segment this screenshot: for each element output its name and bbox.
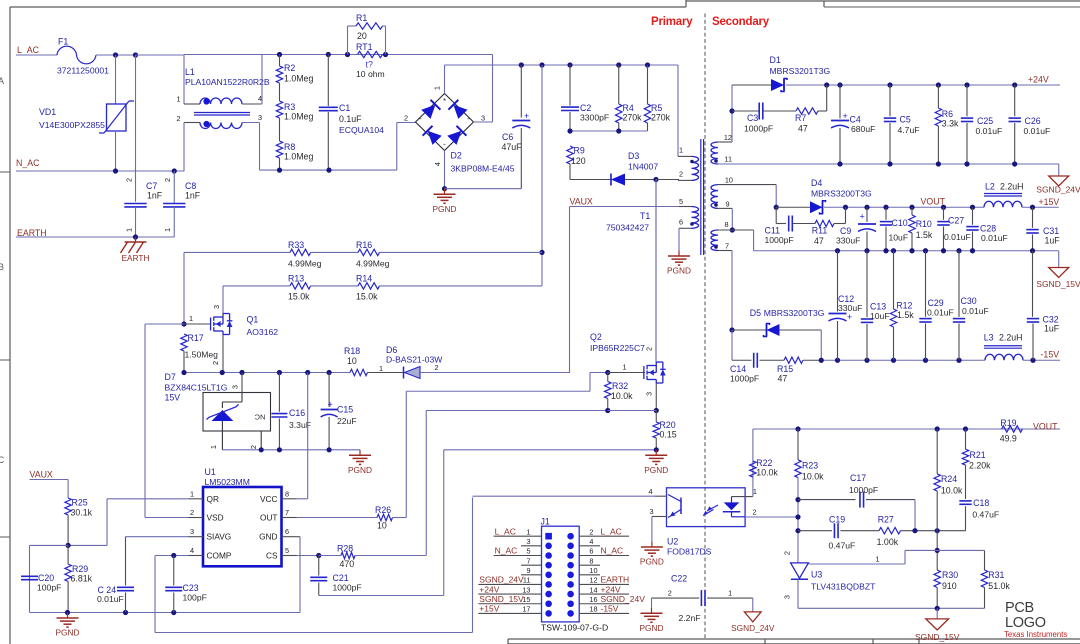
svg-text:4: 4	[258, 94, 262, 103]
svg-text:1000pF: 1000pF	[849, 485, 878, 495]
svg-text:AO3162: AO3162	[247, 327, 279, 337]
svg-text:2: 2	[125, 178, 134, 182]
svg-text:2.2nF: 2.2nF	[679, 613, 701, 623]
svg-text:J1: J1	[541, 517, 550, 527]
svg-text:B: B	[0, 262, 4, 272]
svg-text:R17: R17	[188, 333, 204, 343]
svg-text:1.5k: 1.5k	[897, 310, 914, 320]
svg-text:LM5023MM: LM5023MM	[205, 477, 250, 487]
svg-text:SGND_24V: SGND_24V	[601, 594, 646, 604]
svg-text:1: 1	[433, 86, 442, 90]
svg-text:0.15: 0.15	[660, 430, 677, 440]
svg-text:6: 6	[679, 218, 683, 227]
svg-text:L1: L1	[185, 67, 195, 77]
svg-text:C7: C7	[146, 181, 157, 191]
svg-text:SGND_15V: SGND_15V	[915, 632, 960, 642]
svg-text:D2: D2	[451, 151, 462, 161]
svg-text:C3: C3	[747, 113, 758, 123]
svg-text:D1: D1	[770, 55, 781, 65]
svg-text:PLA10AN1522R0R2B: PLA10AN1522R0R2B	[185, 77, 270, 87]
svg-text:PGND: PGND	[348, 465, 372, 475]
svg-text:2: 2	[668, 589, 672, 598]
svg-text:5: 5	[285, 546, 289, 555]
svg-text:3: 3	[649, 507, 653, 516]
svg-text:7: 7	[285, 508, 289, 517]
svg-text:20: 20	[357, 31, 367, 41]
svg-text:120: 120	[571, 156, 586, 166]
svg-text:1: 1	[753, 487, 757, 496]
svg-text:750342427: 750342427	[606, 223, 649, 233]
svg-text:47: 47	[814, 236, 824, 246]
svg-text:4: 4	[190, 546, 194, 555]
svg-text:PCB: PCB	[1005, 600, 1034, 616]
svg-text:C4: C4	[850, 115, 861, 125]
svg-text:12: 12	[589, 576, 597, 585]
svg-text:U3: U3	[811, 570, 822, 580]
svg-text:F1: F1	[58, 37, 68, 47]
svg-text:1: 1	[876, 555, 880, 564]
svg-text:R18: R18	[344, 346, 360, 356]
svg-text:R25: R25	[72, 498, 88, 508]
svg-text:0.01uF: 0.01uF	[962, 306, 989, 316]
svg-text:1.5k: 1.5k	[916, 230, 933, 240]
svg-text:3: 3	[645, 392, 654, 396]
svg-text:COMP: COMP	[207, 551, 232, 561]
svg-text:R26: R26	[375, 505, 391, 515]
svg-text:C1: C1	[339, 103, 350, 113]
svg-text:3: 3	[258, 113, 262, 122]
svg-text:C31: C31	[1043, 226, 1059, 236]
svg-text:Texas Instruments: Texas Instruments	[1004, 630, 1067, 639]
svg-text:L2: L2	[985, 182, 995, 192]
svg-text:47: 47	[778, 374, 788, 384]
svg-text:R30: R30	[942, 570, 958, 580]
svg-text:Q1: Q1	[247, 315, 259, 325]
svg-text:3: 3	[212, 305, 221, 309]
svg-text:R29: R29	[72, 564, 88, 574]
svg-text:2: 2	[163, 178, 172, 182]
svg-text:C23: C23	[183, 583, 199, 593]
svg-text:MBRS3200T3G: MBRS3200T3G	[764, 308, 825, 318]
svg-text:+: +	[860, 212, 865, 222]
svg-text:4.7uF: 4.7uF	[898, 125, 920, 135]
svg-text:MBRS3200T3G: MBRS3200T3G	[811, 189, 872, 199]
svg-text:C8: C8	[185, 181, 196, 191]
svg-text:-15V: -15V	[1041, 350, 1060, 360]
svg-text:2.2uH: 2.2uH	[1000, 182, 1023, 192]
svg-text:U1: U1	[205, 467, 216, 477]
svg-text:37211250001: 37211250001	[57, 66, 109, 76]
svg-text:15.0k: 15.0k	[288, 292, 310, 302]
svg-text:100pF: 100pF	[37, 583, 61, 593]
svg-text:0.47uF: 0.47uF	[829, 541, 856, 551]
svg-text:10: 10	[725, 176, 733, 185]
svg-text:PGND: PGND	[640, 623, 664, 633]
svg-text:R5: R5	[651, 103, 662, 113]
svg-text:0.1uF: 0.1uF	[339, 114, 362, 124]
svg-text:L3: L3	[984, 333, 994, 343]
svg-text:-: -	[419, 114, 422, 123]
svg-text:11: 11	[724, 155, 732, 164]
svg-text:C18: C18	[973, 498, 989, 508]
svg-text:12: 12	[724, 133, 732, 142]
svg-text:1: 1	[176, 95, 180, 104]
svg-text:0.01uF: 0.01uF	[1024, 126, 1051, 136]
svg-text:7: 7	[725, 242, 729, 251]
svg-text:6.81k: 6.81k	[71, 574, 93, 584]
svg-text:L_AC: L_AC	[601, 526, 622, 536]
svg-text:Secondary: Secondary	[712, 16, 770, 28]
svg-text:ECQUA104: ECQUA104	[339, 125, 384, 135]
svg-text:1: 1	[163, 228, 172, 232]
svg-text:PGND: PGND	[433, 204, 457, 214]
svg-text:SGND_15V: SGND_15V	[1036, 279, 1080, 289]
svg-text:C25: C25	[977, 116, 993, 126]
svg-text:2: 2	[211, 361, 220, 365]
svg-text:10: 10	[347, 356, 357, 366]
svg-text:R32: R32	[612, 381, 628, 391]
svg-text:TLV431BQDBZT: TLV431BQDBZT	[811, 582, 876, 592]
svg-text:R8: R8	[284, 142, 295, 152]
svg-text:1000pF: 1000pF	[744, 124, 773, 134]
svg-text:R6: R6	[942, 109, 953, 119]
svg-text:C29: C29	[928, 298, 944, 308]
svg-text:2.20k: 2.20k	[969, 461, 991, 471]
svg-text:C14: C14	[730, 364, 746, 374]
svg-text:VAUX: VAUX	[570, 197, 593, 207]
svg-text:OUT: OUT	[260, 513, 278, 523]
svg-text:VSD: VSD	[207, 513, 224, 523]
svg-text:QR: QR	[207, 494, 219, 504]
svg-text:PGND: PGND	[640, 557, 664, 567]
svg-text:1uF: 1uF	[1045, 236, 1061, 246]
svg-text:2: 2	[783, 551, 792, 555]
svg-text:C20: C20	[38, 573, 54, 583]
svg-text:2: 2	[404, 114, 408, 123]
svg-text:C: C	[0, 455, 5, 465]
svg-text:PGND: PGND	[644, 465, 668, 475]
svg-text:R11: R11	[812, 226, 828, 236]
svg-text:PGND: PGND	[667, 266, 691, 276]
svg-text:100pF: 100pF	[183, 593, 207, 603]
svg-text:10: 10	[377, 521, 387, 531]
svg-text:1000pF: 1000pF	[765, 235, 794, 245]
svg-text:1.00k: 1.00k	[877, 537, 899, 547]
svg-text:+: +	[847, 312, 852, 322]
svg-text:0.47uF: 0.47uF	[972, 510, 999, 520]
svg-text:51.0k: 51.0k	[988, 581, 1010, 591]
svg-text:49.9: 49.9	[1000, 434, 1017, 444]
svg-text:+: +	[328, 400, 333, 410]
svg-text:R1: R1	[356, 13, 367, 23]
svg-text:VAUX: VAUX	[30, 470, 53, 480]
svg-text:R12: R12	[896, 301, 912, 311]
svg-text:1: 1	[209, 445, 218, 449]
svg-text:270k: 270k	[651, 113, 671, 123]
svg-text:22uF: 22uF	[337, 416, 357, 426]
svg-text:10: 10	[589, 566, 597, 575]
svg-text:16: 16	[589, 595, 597, 604]
svg-text:C16: C16	[289, 408, 305, 418]
svg-text:C22: C22	[671, 574, 687, 584]
svg-text:D3: D3	[628, 151, 639, 161]
svg-text:NC: NC	[254, 413, 265, 422]
svg-text:-15V: -15V	[601, 604, 619, 614]
svg-text:15V: 15V	[165, 393, 181, 403]
svg-text:9: 9	[526, 566, 530, 575]
svg-text:+24V: +24V	[601, 584, 621, 594]
svg-text:V14E300PX2855: V14E300PX2855	[39, 120, 105, 130]
svg-text:2.2uH: 2.2uH	[999, 333, 1022, 343]
svg-text:1: 1	[623, 363, 627, 372]
svg-text:8: 8	[589, 556, 593, 565]
svg-text:47: 47	[798, 124, 808, 134]
svg-text:5: 5	[679, 197, 683, 206]
svg-text:2: 2	[679, 170, 683, 179]
svg-text:N_AC: N_AC	[601, 546, 624, 556]
svg-text:680uF: 680uF	[851, 124, 875, 134]
svg-text:VOUT: VOUT	[921, 197, 946, 207]
svg-text:C17: C17	[850, 473, 866, 483]
svg-text:L_AC: L_AC	[495, 526, 516, 536]
svg-text:6: 6	[589, 547, 593, 556]
svg-text:3.3k: 3.3k	[942, 119, 959, 129]
svg-text:0.01uF: 0.01uF	[981, 233, 1008, 243]
svg-text:C10: C10	[892, 218, 908, 228]
svg-text:C30: C30	[961, 296, 977, 306]
svg-text:C11: C11	[765, 226, 781, 236]
svg-text:FOD817DS: FOD817DS	[667, 547, 712, 557]
svg-text:8: 8	[285, 489, 289, 498]
svg-text:1.50Meg: 1.50Meg	[185, 350, 219, 360]
svg-text:SGND_24V: SGND_24V	[1036, 184, 1080, 194]
svg-text:1: 1	[526, 527, 530, 536]
svg-text:C9: C9	[840, 226, 851, 236]
svg-text:8: 8	[724, 220, 728, 229]
svg-text:D-BAS21-03W: D-BAS21-03W	[386, 355, 443, 365]
svg-text:Q2: Q2	[590, 332, 602, 342]
svg-text:MBRS3201T3G: MBRS3201T3G	[770, 66, 831, 76]
svg-text:R15: R15	[777, 364, 793, 374]
svg-text:0.01uF: 0.01uF	[944, 232, 971, 242]
svg-text:D6: D6	[386, 345, 397, 355]
svg-text:t?: t?	[366, 60, 373, 70]
svg-text:R20: R20	[660, 420, 676, 430]
svg-text:SGND_24V: SGND_24V	[479, 575, 524, 585]
svg-text:1: 1	[679, 146, 683, 155]
svg-text:VD1: VD1	[39, 107, 56, 117]
svg-text:3: 3	[231, 385, 240, 389]
svg-text:R4: R4	[623, 103, 634, 113]
svg-text:GND: GND	[259, 532, 277, 542]
svg-text:30.1k: 30.1k	[71, 508, 93, 518]
svg-text:VCC: VCC	[260, 494, 278, 504]
svg-text:330uF: 330uF	[838, 303, 862, 313]
svg-text:+24V: +24V	[479, 584, 499, 594]
svg-text:3: 3	[526, 537, 530, 546]
svg-text:IPB65R225C7: IPB65R225C7	[590, 343, 645, 353]
svg-text:A: A	[0, 76, 4, 86]
svg-text:470: 470	[340, 559, 355, 569]
svg-text:L_AC: L_AC	[17, 45, 40, 55]
svg-text:R10: R10	[916, 219, 932, 229]
svg-text:R33: R33	[288, 240, 304, 250]
svg-text:1.0Meg: 1.0Meg	[284, 112, 313, 122]
svg-text:15.0k: 15.0k	[356, 292, 378, 302]
svg-text:U2: U2	[667, 537, 678, 547]
svg-text:SGND_15V: SGND_15V	[479, 594, 524, 604]
svg-text:10.0k: 10.0k	[802, 472, 824, 482]
svg-text:BZX84C15LT1G: BZX84C15LT1G	[165, 383, 228, 393]
svg-text:1uF: 1uF	[1044, 324, 1060, 334]
svg-text:+: +	[524, 111, 529, 121]
svg-text:13: 13	[522, 585, 530, 594]
svg-text:SIAVG: SIAVG	[207, 532, 232, 542]
svg-text:R28: R28	[337, 544, 353, 554]
svg-text:R19: R19	[1000, 418, 1016, 428]
svg-text:C19: C19	[829, 515, 845, 525]
svg-text:910: 910	[942, 581, 957, 591]
svg-text:2: 2	[753, 508, 757, 517]
svg-text:R21: R21	[970, 450, 986, 460]
svg-text:1: 1	[125, 228, 134, 232]
svg-text:1: 1	[189, 314, 193, 323]
svg-text:C2: C2	[580, 103, 591, 113]
svg-text:0.01uF: 0.01uF	[97, 594, 124, 604]
svg-text:0.01uF: 0.01uF	[927, 308, 954, 318]
svg-text:RT1: RT1	[356, 42, 373, 52]
svg-text:N_AC: N_AC	[495, 546, 518, 556]
svg-text:4.99Meg: 4.99Meg	[356, 259, 390, 269]
svg-text:1nF: 1nF	[185, 191, 201, 201]
svg-text:C13: C13	[870, 302, 886, 312]
svg-text:+15V: +15V	[479, 604, 499, 614]
svg-text:1nF: 1nF	[147, 191, 163, 201]
svg-text:14: 14	[589, 585, 597, 594]
svg-text:4: 4	[433, 162, 442, 166]
svg-text:+: +	[843, 111, 848, 121]
svg-text:10 ohm: 10 ohm	[356, 69, 385, 79]
svg-text:1.0Meg: 1.0Meg	[284, 152, 313, 162]
svg-text:17: 17	[522, 605, 530, 614]
svg-text:R27: R27	[878, 515, 894, 525]
svg-text:47uF: 47uF	[502, 142, 523, 152]
svg-text:9: 9	[725, 200, 729, 209]
svg-text:C21: C21	[333, 573, 349, 583]
svg-text:11: 11	[523, 576, 531, 585]
svg-text:1: 1	[379, 364, 383, 373]
svg-text:R7: R7	[795, 113, 806, 123]
svg-text:270k: 270k	[623, 113, 643, 123]
svg-text:1N4007: 1N4007	[628, 162, 658, 172]
svg-text:2: 2	[190, 508, 194, 517]
svg-text:EARTH: EARTH	[122, 253, 150, 263]
svg-text:10.0k: 10.0k	[941, 486, 963, 496]
svg-text:PGND: PGND	[56, 628, 80, 638]
svg-text:4: 4	[648, 487, 652, 496]
svg-text:3: 3	[190, 527, 194, 536]
svg-text:C27: C27	[948, 216, 964, 226]
svg-text:C15: C15	[337, 405, 353, 415]
svg-text:CS: CS	[266, 551, 278, 561]
svg-text:LOGO: LOGO	[1005, 615, 1046, 631]
svg-text:2: 2	[176, 114, 180, 123]
svg-text:+15V: +15V	[1039, 197, 1060, 207]
svg-text:R23: R23	[802, 461, 818, 471]
svg-text:C5: C5	[900, 115, 911, 125]
svg-text:0.01uF: 0.01uF	[976, 126, 1003, 136]
svg-text:R14: R14	[356, 274, 372, 284]
svg-text:2: 2	[249, 445, 258, 449]
svg-text:3300pF: 3300pF	[580, 113, 609, 123]
svg-text:R13: R13	[288, 274, 304, 284]
svg-text:*: *	[443, 97, 446, 106]
svg-text:4.99Meg: 4.99Meg	[288, 259, 322, 269]
svg-text:2: 2	[645, 347, 654, 351]
svg-text:R9: R9	[574, 146, 585, 156]
svg-text:D4: D4	[811, 178, 822, 188]
svg-text:D7: D7	[165, 372, 176, 382]
svg-text:3KBP08M-E4/45: 3KBP08M-E4/45	[451, 164, 515, 174]
svg-text:T1: T1	[640, 211, 650, 221]
svg-text:1000pF: 1000pF	[333, 583, 362, 593]
svg-text:R3: R3	[284, 102, 295, 112]
svg-text:1: 1	[728, 589, 732, 598]
svg-text:R24: R24	[941, 474, 957, 484]
svg-text:SGND_24V: SGND_24V	[731, 623, 775, 633]
svg-text:C26: C26	[1025, 116, 1041, 126]
svg-text:D5: D5	[750, 308, 761, 318]
svg-text:6: 6	[285, 527, 289, 536]
svg-text:N_AC: N_AC	[16, 158, 40, 168]
svg-text:3: 3	[481, 114, 485, 123]
svg-text:10.0k: 10.0k	[611, 391, 633, 401]
svg-text:R2: R2	[284, 63, 295, 73]
svg-text:10uF: 10uF	[889, 233, 909, 243]
svg-text:5: 5	[526, 547, 530, 556]
svg-text:R31: R31	[988, 570, 1004, 580]
svg-text:Primary: Primary	[651, 16, 693, 28]
svg-text:3: 3	[783, 595, 792, 599]
svg-text:TSW-109-07-G-D: TSW-109-07-G-D	[541, 623, 608, 633]
svg-text:VOUT: VOUT	[1033, 422, 1058, 432]
svg-text:2: 2	[589, 527, 593, 536]
svg-text:-: -	[443, 140, 446, 149]
svg-text:1000pF: 1000pF	[730, 374, 759, 384]
svg-text:C28: C28	[980, 224, 996, 234]
svg-text:18: 18	[589, 605, 597, 614]
svg-text:7: 7	[526, 556, 530, 565]
svg-text:4: 4	[589, 537, 593, 546]
svg-text:+24V: +24V	[1028, 75, 1049, 85]
svg-text:-: -	[467, 114, 470, 123]
svg-text:R16: R16	[356, 240, 372, 250]
svg-text:R22: R22	[756, 458, 772, 468]
svg-text:330uF: 330uF	[836, 236, 860, 246]
svg-text:1: 1	[190, 489, 194, 498]
svg-text:1.0Meg: 1.0Meg	[284, 74, 313, 84]
svg-text:10.0k: 10.0k	[756, 468, 778, 478]
svg-text:EARTH: EARTH	[601, 575, 630, 585]
svg-text:C6: C6	[502, 132, 513, 142]
svg-text:10uF: 10uF	[870, 311, 890, 321]
